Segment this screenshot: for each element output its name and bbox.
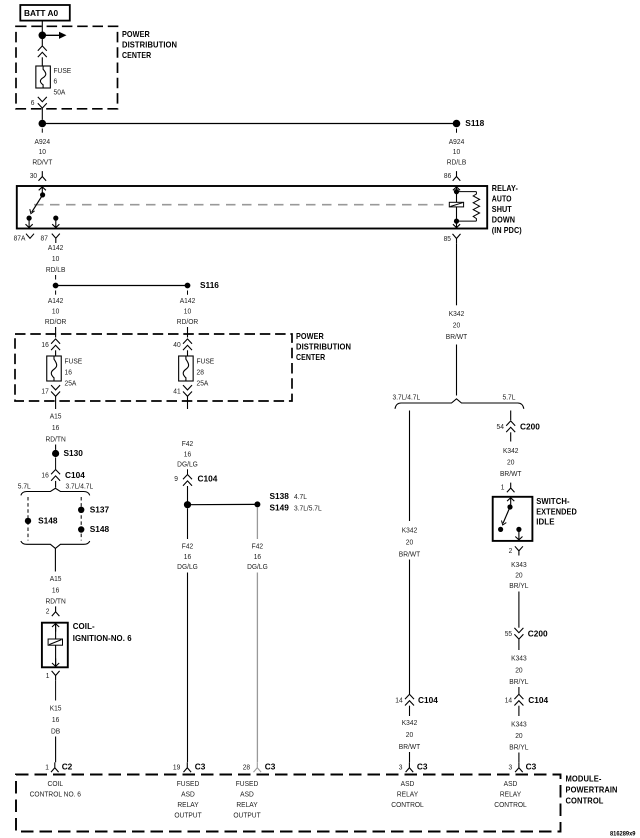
svg-text:S148: S148	[90, 524, 110, 534]
svg-text:20: 20	[406, 538, 413, 547]
svg-text:55: 55	[505, 630, 512, 639]
svg-text:16: 16	[52, 586, 59, 595]
svg-text:POWERTRAIN: POWERTRAIN	[566, 785, 618, 794]
svg-text:K342: K342	[402, 719, 418, 728]
svg-text:DISTRIBUTION: DISTRIBUTION	[122, 40, 177, 49]
svg-text:BR/WT: BR/WT	[399, 550, 421, 559]
svg-text:87: 87	[41, 234, 48, 243]
svg-text:K342: K342	[449, 310, 465, 319]
svg-text:C104: C104	[65, 470, 85, 480]
svg-text:CENTER: CENTER	[296, 353, 325, 362]
svg-text:DB: DB	[51, 727, 60, 736]
svg-text:20: 20	[406, 731, 413, 740]
svg-text:28: 28	[197, 368, 204, 377]
svg-text:K15: K15	[50, 704, 62, 713]
svg-text:4.7L: 4.7L	[294, 493, 307, 502]
svg-text:ASD: ASD	[401, 780, 415, 789]
svg-text:ASD: ASD	[240, 790, 254, 799]
svg-text:S118: S118	[465, 118, 484, 128]
svg-text:A142: A142	[180, 297, 196, 306]
svg-text:19: 19	[173, 763, 180, 772]
svg-text:3.7L/4.7L: 3.7L/4.7L	[393, 393, 421, 402]
svg-text:16: 16	[184, 450, 191, 459]
svg-text:20: 20	[515, 732, 522, 741]
svg-text:FUSE: FUSE	[197, 357, 215, 366]
svg-text:BR/WT: BR/WT	[399, 743, 421, 752]
svg-text:20: 20	[515, 571, 522, 580]
svg-text:2: 2	[509, 546, 513, 555]
svg-text:K343: K343	[511, 720, 527, 729]
svg-text:S137: S137	[90, 504, 110, 514]
svg-text:16: 16	[65, 368, 72, 377]
svg-text:RELAY: RELAY	[177, 801, 198, 810]
svg-text:C2: C2	[62, 761, 73, 771]
svg-text:6: 6	[54, 77, 58, 86]
svg-text:1: 1	[501, 483, 505, 492]
svg-text:A142: A142	[48, 244, 64, 253]
svg-text:SWITCH-: SWITCH-	[536, 497, 570, 506]
svg-text:S116: S116	[200, 280, 219, 290]
svg-text:C200: C200	[520, 421, 540, 431]
svg-text:BR/WT: BR/WT	[500, 470, 522, 479]
svg-text:DG/LG: DG/LG	[177, 563, 198, 572]
svg-text:16: 16	[52, 716, 59, 725]
svg-text:54: 54	[497, 423, 504, 432]
svg-text:50A: 50A	[54, 88, 66, 97]
svg-text:SHUT: SHUT	[492, 205, 512, 214]
svg-text:20: 20	[453, 321, 460, 330]
svg-text:F42: F42	[252, 542, 263, 551]
svg-text:BATT A0: BATT A0	[24, 8, 58, 18]
svg-text:DG/LG: DG/LG	[247, 563, 268, 572]
svg-text:RD/TN: RD/TN	[45, 597, 65, 606]
svg-text:MODULE-: MODULE-	[566, 774, 602, 783]
svg-text:C104: C104	[528, 695, 548, 705]
svg-text:AUTO: AUTO	[492, 195, 512, 204]
svg-text:A924: A924	[35, 138, 51, 147]
svg-text:RD/VT: RD/VT	[32, 158, 53, 167]
svg-text:DOWN: DOWN	[492, 216, 515, 225]
svg-text:K343: K343	[511, 560, 527, 569]
svg-text:5.7L: 5.7L	[18, 482, 31, 491]
svg-text:30: 30	[30, 172, 37, 181]
svg-text:3.7L/4.7L: 3.7L/4.7L	[66, 482, 94, 491]
svg-text:10: 10	[39, 148, 46, 157]
svg-text:CONTROL NO. 6: CONTROL NO. 6	[30, 790, 81, 799]
svg-text:CONTROL: CONTROL	[391, 801, 423, 810]
svg-text:C3: C3	[195, 761, 206, 771]
svg-text:A15: A15	[50, 575, 62, 584]
svg-text:16: 16	[184, 553, 191, 562]
svg-text:16: 16	[52, 424, 59, 433]
svg-text:6: 6	[31, 99, 35, 108]
svg-text:S148: S148	[38, 515, 58, 525]
svg-text:K342: K342	[402, 526, 418, 535]
svg-text:10: 10	[52, 307, 59, 316]
svg-text:41: 41	[173, 387, 180, 396]
svg-text:16: 16	[41, 471, 48, 480]
svg-text:9: 9	[174, 475, 178, 484]
svg-text:RELAY: RELAY	[397, 790, 418, 799]
svg-text:IGNITION-NO. 6: IGNITION-NO. 6	[73, 634, 132, 643]
svg-text:EXTENDED: EXTENDED	[536, 507, 577, 516]
svg-text:FUSE: FUSE	[54, 67, 72, 76]
svg-text:CENTER: CENTER	[122, 51, 151, 60]
svg-text:10: 10	[184, 307, 191, 316]
svg-text:BR/YL: BR/YL	[509, 582, 528, 591]
svg-text:86: 86	[444, 172, 451, 181]
svg-text:F42: F42	[182, 440, 193, 449]
svg-text:BR/WT: BR/WT	[446, 332, 468, 341]
svg-text:POWER: POWER	[296, 332, 324, 341]
svg-text:DG/LG: DG/LG	[177, 460, 198, 469]
svg-text:K343: K343	[511, 654, 527, 663]
svg-text:1: 1	[45, 763, 49, 772]
svg-text:14: 14	[395, 696, 402, 705]
svg-text:DISTRIBUTION: DISTRIBUTION	[296, 343, 351, 352]
svg-text:14: 14	[505, 696, 512, 705]
svg-text:C104: C104	[198, 473, 218, 483]
svg-text:85: 85	[444, 235, 451, 244]
svg-text:RELAY-: RELAY-	[492, 184, 518, 193]
svg-text:40: 40	[173, 341, 180, 350]
svg-text:IDLE: IDLE	[536, 518, 555, 527]
svg-text:RD/TN: RD/TN	[45, 435, 65, 444]
svg-text:COIL: COIL	[48, 780, 64, 789]
svg-text:20: 20	[515, 666, 522, 675]
svg-text:3: 3	[509, 763, 513, 772]
svg-text:A924: A924	[449, 138, 465, 147]
svg-text:FUSED: FUSED	[177, 780, 199, 789]
svg-text:C200: C200	[528, 628, 548, 638]
svg-text:A15: A15	[50, 412, 62, 421]
svg-text:(IN PDC): (IN PDC)	[492, 226, 522, 235]
svg-text:28: 28	[243, 763, 250, 772]
svg-text:BR/YL: BR/YL	[509, 743, 528, 752]
svg-text:RD/LB: RD/LB	[46, 265, 66, 274]
svg-text:ASD: ASD	[181, 790, 195, 799]
svg-text:C3: C3	[417, 761, 428, 771]
svg-text:10: 10	[453, 148, 460, 157]
svg-text:RD/OR: RD/OR	[177, 318, 198, 327]
svg-text:FUSE: FUSE	[65, 357, 83, 366]
svg-text:RD/LB: RD/LB	[447, 158, 467, 167]
svg-text:OUTPUT: OUTPUT	[233, 811, 261, 820]
svg-text:CONTROL: CONTROL	[566, 797, 604, 806]
svg-text:2: 2	[46, 607, 50, 616]
svg-text:RELAY: RELAY	[500, 790, 521, 799]
svg-text:S138: S138	[270, 491, 290, 501]
svg-text:ASD: ASD	[504, 780, 518, 789]
svg-text:20: 20	[507, 458, 514, 467]
svg-text:16: 16	[254, 553, 261, 562]
svg-text:5.7L: 5.7L	[503, 393, 516, 402]
svg-text:17: 17	[41, 387, 48, 396]
svg-text:C3: C3	[265, 761, 276, 771]
svg-text:CONTROL: CONTROL	[494, 801, 526, 810]
svg-text:A142: A142	[48, 297, 64, 306]
svg-text:RD/OR: RD/OR	[45, 318, 66, 327]
svg-text:3.7L/5.7L: 3.7L/5.7L	[294, 504, 322, 513]
svg-text:S130: S130	[64, 448, 84, 458]
svg-text:16: 16	[41, 341, 48, 350]
svg-text:COIL-: COIL-	[73, 622, 95, 631]
svg-text:OUTPUT: OUTPUT	[174, 811, 202, 820]
svg-text:C104: C104	[418, 695, 438, 705]
svg-text:POWER: POWER	[122, 30, 150, 39]
svg-text:C3: C3	[526, 761, 537, 771]
svg-text:87A: 87A	[14, 234, 26, 243]
svg-text:3: 3	[399, 763, 403, 772]
svg-text:10: 10	[52, 255, 59, 264]
svg-text:816289x9: 816289x9	[610, 831, 636, 837]
svg-text:25A: 25A	[197, 379, 209, 388]
svg-text:FUSED: FUSED	[236, 780, 258, 789]
svg-text:25A: 25A	[65, 379, 77, 388]
svg-text:1: 1	[46, 671, 50, 680]
svg-text:RELAY: RELAY	[236, 801, 257, 810]
svg-text:F42: F42	[182, 542, 193, 551]
svg-text:K342: K342	[503, 447, 519, 456]
svg-text:BR/YL: BR/YL	[509, 678, 528, 687]
svg-text:S149: S149	[270, 503, 290, 513]
